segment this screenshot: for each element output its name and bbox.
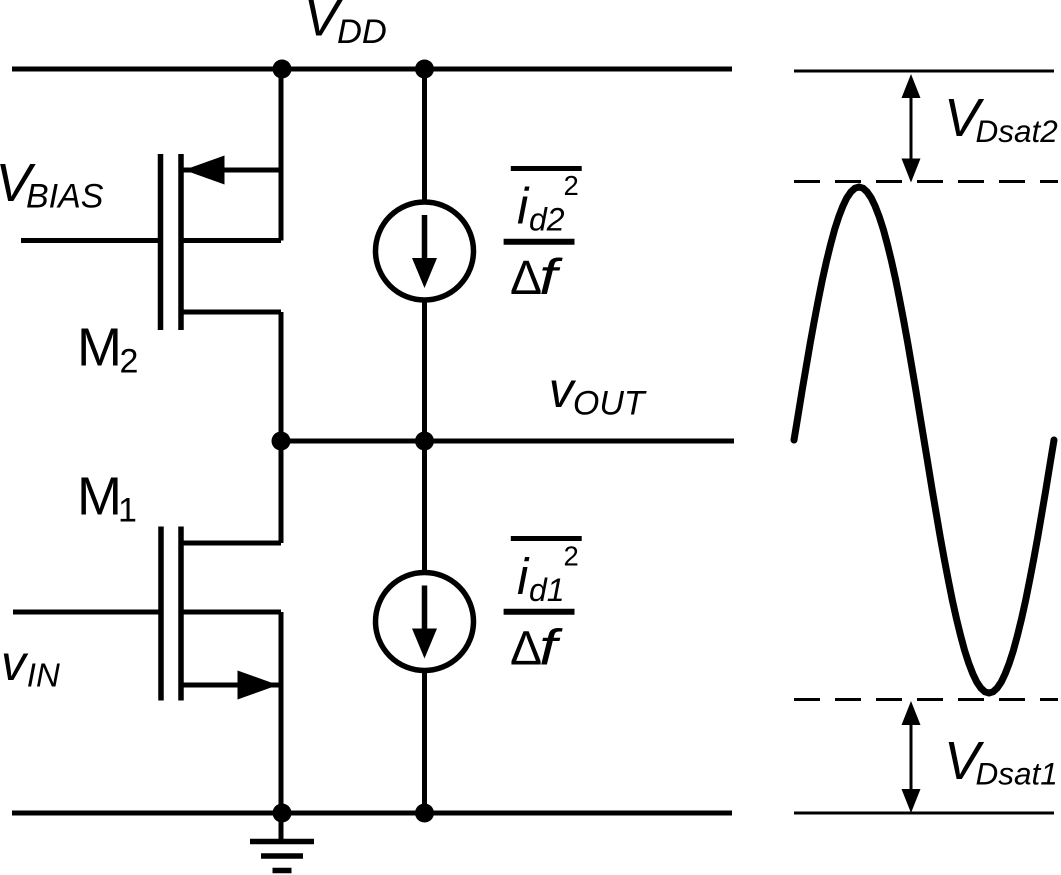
node dot gnd/M1 — [273, 804, 292, 823]
sine waveform — [794, 187, 1054, 693]
svg-text:v: v — [1, 635, 29, 691]
svg-text:BIAS: BIAS — [26, 178, 104, 216]
svg-text:2: 2 — [564, 170, 579, 201]
ground bar 2 — [261, 853, 303, 859]
transistor M2 drain terminal — [181, 310, 281, 315]
waveform top rail line — [794, 70, 1054, 73]
transistor M1 gate bar — [158, 527, 164, 701]
wire M1 source to ground rail — [279, 612, 284, 813]
svg-text:DD: DD — [337, 13, 387, 51]
svg-text:Dsat2: Dsat2 — [976, 113, 1059, 149]
transistor M2 gate bar — [158, 154, 164, 330]
current source I_d1 arrow — [412, 586, 437, 659]
transistor M2 source arrow (points left) — [184, 156, 225, 185]
current source I_d1 circle — [376, 573, 474, 671]
VDsat2 arrow head down — [902, 159, 921, 183]
svg-text:f: f — [539, 621, 564, 676]
VDsat1 measure arrow line — [910, 720, 913, 794]
VDsat1 arrow head down — [902, 789, 921, 813]
node dot gnd/Id1 — [415, 804, 434, 823]
svg-text:OUT: OUT — [573, 385, 647, 423]
wire ground rail — [12, 811, 732, 816]
svg-text:d1: d1 — [529, 572, 565, 608]
transistor M1 source arrow (points right) — [238, 671, 279, 700]
svg-text:M: M — [77, 467, 122, 527]
transistor M1 source terminal — [181, 683, 281, 688]
ground bar 3 — [273, 868, 292, 874]
label fraction bar lower — [504, 609, 575, 615]
wire vOUT rail — [281, 439, 734, 444]
current source I_d2 arrow — [412, 215, 437, 288]
wire M2 drain to vOUT node — [279, 312, 284, 441]
svg-text:M: M — [77, 318, 122, 378]
svg-text:2: 2 — [564, 541, 579, 572]
transistor M2 source terminal — [181, 168, 281, 173]
VDsat2 measure arrow line — [910, 93, 913, 164]
svg-text:Δ: Δ — [510, 623, 542, 676]
label id2^2/df overline — [511, 166, 582, 171]
wire VDD rail — [12, 67, 732, 72]
svg-text:Dsat1: Dsat1 — [976, 756, 1058, 792]
wire VBIAS gate lead — [21, 238, 161, 243]
wire vIN gate lead — [13, 610, 161, 615]
label id1^2 overline — [511, 536, 582, 541]
svg-text:Δ: Δ — [510, 252, 542, 305]
svg-text:2: 2 — [120, 343, 139, 381]
transistor M1 body tie — [181, 610, 281, 615]
node dot vOUT/M — [272, 432, 291, 451]
transistor M2 channel bar — [178, 154, 184, 330]
waveform bottom rail line — [794, 812, 1054, 815]
wire upper current source bottom lead — [422, 300, 427, 441]
label fraction bar upper — [504, 239, 575, 245]
transistor M1 channel bar — [178, 527, 184, 701]
wire lower current source top lead — [422, 441, 427, 573]
svg-text:d2: d2 — [529, 202, 565, 238]
node dot VDD/Id2 — [415, 60, 434, 79]
ground stem — [279, 813, 284, 839]
svg-text:f: f — [539, 250, 564, 305]
wire VDD to M2 source — [279, 69, 284, 241]
ground bar 1 — [250, 839, 314, 845]
VDsat1 arrow head up — [902, 701, 921, 725]
node dot VDD/M2 — [273, 60, 292, 79]
svg-text:IN: IN — [27, 657, 60, 694]
transistor M1 drain terminal — [181, 541, 281, 546]
transistor M2 body tie — [181, 238, 281, 243]
current source I_d2 circle — [376, 202, 474, 300]
wire upper current source top lead — [422, 69, 427, 202]
waveform bottom dashed level — [794, 698, 1058, 701]
VDsat2 arrow head up — [902, 74, 921, 98]
wire lower current source bottom lead — [422, 670, 427, 813]
node dot vOUT/Id — [415, 432, 434, 451]
wire vOUT node to M1 drain — [279, 441, 284, 543]
waveform top dashed level — [794, 180, 1058, 183]
svg-text:1: 1 — [118, 492, 137, 530]
